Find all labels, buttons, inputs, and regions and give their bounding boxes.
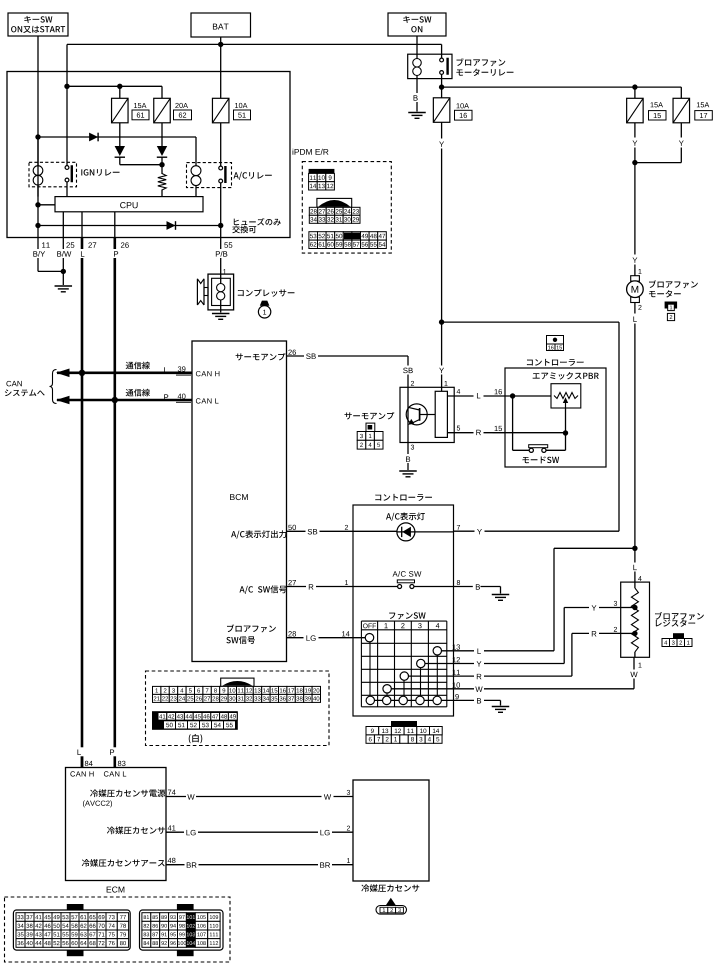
wire horizontal bus from ON/START to blower relay contact xyxy=(67,44,442,167)
fuse 15A 61 xyxy=(112,98,149,123)
resistor R1 internal xyxy=(158,174,166,191)
node junction ground join xyxy=(61,269,66,274)
wire pin27 R row xyxy=(287,586,398,588)
iPDM connector A cells xyxy=(309,173,335,190)
wire L into ECM xyxy=(81,755,84,768)
label R resistor xyxy=(589,629,599,638)
ECM box xyxy=(66,768,167,881)
connector icon resistor xyxy=(662,633,692,646)
label Y pin12 xyxy=(474,659,484,668)
ground symbol compressor xyxy=(212,314,230,320)
pin 28 BCM label xyxy=(288,631,296,636)
wire fuse62 to diode xyxy=(161,123,163,147)
ECM connector right tabs xyxy=(177,904,194,956)
node junction BAT bus xyxy=(218,42,223,47)
diode D2 down xyxy=(115,146,125,157)
wire CAN H row xyxy=(57,371,192,374)
node junction y225 right xyxy=(218,223,223,228)
label LG pin28 xyxy=(304,633,319,642)
connector icon motor 1 2 xyxy=(665,302,678,321)
ECM connector right shell xyxy=(140,910,224,950)
label CAN L ECM xyxy=(104,771,126,776)
node junction diode join xyxy=(159,162,164,167)
wire W row xyxy=(166,796,353,798)
wire fuse15 feed xyxy=(634,87,636,98)
brace CAN system xyxy=(50,370,57,404)
ECM connector left shell xyxy=(13,910,130,950)
label L pin4 xyxy=(474,391,484,400)
wire P thick vertical xyxy=(114,238,117,768)
wire mode SW branch xyxy=(513,396,529,450)
pin 26 label xyxy=(121,242,129,248)
label 冷媒圧カセンサアース ECM xyxy=(82,859,165,867)
label W pin10 xyxy=(474,684,484,693)
label A/C表示灯出力 BCM xyxy=(231,530,286,539)
ECM connector dashed box xyxy=(5,897,231,962)
diode D3 down xyxy=(157,146,167,157)
relay A/C リレー dashed box xyxy=(187,163,232,188)
arrow CAN H left xyxy=(56,369,70,378)
iPDM connector dashed box xyxy=(302,162,391,254)
label 白 xyxy=(189,734,202,743)
label B blower coil xyxy=(410,93,421,102)
node junction pin15 xyxy=(563,430,568,435)
wire Y label thermo xyxy=(437,366,447,375)
wire resistor pin2 tap xyxy=(621,632,635,634)
ground symbol fanSW xyxy=(492,707,510,713)
label B/Y xyxy=(31,249,48,258)
wire L thick vertical xyxy=(81,238,84,768)
node junction x67 y86 xyxy=(64,84,69,89)
wire fanSW stems xyxy=(370,638,437,701)
label ブロアファンSW信号 BCM xyxy=(226,624,275,643)
label サーモアンプ BCM xyxy=(236,353,286,361)
node junction Y branch xyxy=(439,319,444,324)
iPDM connector C cells xyxy=(309,232,386,249)
label B thermo xyxy=(403,454,413,463)
connector icon sensor oval xyxy=(376,898,407,914)
label R pin5 xyxy=(474,427,484,436)
wire fuse61 to diode xyxy=(119,123,121,147)
iPDM connector A header xyxy=(309,169,335,174)
pin 2 label motor xyxy=(638,305,641,310)
wire junction to resistor xyxy=(161,165,163,174)
BCM connector lower block xyxy=(152,711,238,730)
thermo amp output block xyxy=(435,391,447,437)
label コンプレッサー xyxy=(238,289,295,297)
label W resistor xyxy=(629,670,639,679)
label Y fuse15 xyxy=(630,138,640,148)
label Y fuse16 xyxy=(437,139,447,149)
wire P/B pin55 down xyxy=(220,238,222,275)
pin 1 sensor label xyxy=(347,858,350,863)
diode D1 right-pointing xyxy=(89,133,98,142)
label BCM xyxy=(230,494,248,500)
ECM connector left tabs xyxy=(67,904,84,956)
thermo amp box xyxy=(400,387,454,442)
wire resistor top stub xyxy=(634,582,636,588)
relay IGN contact xyxy=(65,165,73,196)
label W right xyxy=(322,792,334,801)
wire fanSW row12 out xyxy=(421,608,621,664)
pin 2 thermo label xyxy=(411,381,414,386)
pin 74 label xyxy=(166,790,179,797)
wire pin26 SB xyxy=(287,356,409,470)
pin 39 label xyxy=(176,366,191,375)
ECM connector right cells xyxy=(142,913,220,948)
label ブロアファンレジスター xyxy=(655,612,704,627)
wire B/Y pin11 down xyxy=(38,238,63,272)
label 冷媒圧カセンサ ECM xyxy=(107,826,165,834)
fan switch headers xyxy=(363,623,439,628)
resistor R2 element xyxy=(631,588,638,652)
pin 11 label xyxy=(42,242,50,247)
LED A/C表示灯 xyxy=(397,523,454,541)
node junction CAN H on L xyxy=(79,370,85,376)
wire LG row xyxy=(166,831,353,833)
label B pin9 xyxy=(474,696,484,705)
label コントローラー upper xyxy=(527,359,584,366)
relay IGN coil xyxy=(33,166,43,197)
arrow CAN L left xyxy=(56,396,70,405)
label Y pin7 xyxy=(475,527,485,536)
node junction CAN L on P xyxy=(112,397,118,403)
wire fanSW row9 out xyxy=(370,700,501,705)
relay ブロアファンモーターリレー box xyxy=(408,54,452,78)
pin 2 sensor label xyxy=(347,826,350,831)
label ECM xyxy=(107,886,125,892)
pin 3 resistor label xyxy=(610,601,621,608)
BCM connector hump xyxy=(221,678,254,686)
label CAN H ECM xyxy=(70,771,93,776)
label BR left xyxy=(185,860,199,869)
wire pin11 line segment xyxy=(37,137,39,238)
wire pin25 from CPU xyxy=(62,212,64,238)
label A/C表示灯 xyxy=(386,512,425,521)
pin 26 BCM label xyxy=(288,350,296,355)
motor ブロアファンモーター xyxy=(627,276,644,303)
wire diode D2 out xyxy=(119,158,121,165)
label ヒューズのみ交換可 xyxy=(232,218,281,233)
label 通信線 2 xyxy=(126,389,150,397)
wire pin8 to ground xyxy=(481,587,501,594)
relay A/C coil xyxy=(191,166,201,197)
pin 4 resistor label xyxy=(638,576,642,581)
controller air mix box xyxy=(505,368,606,467)
wire Y branch to controller pin7 xyxy=(442,322,619,531)
wire pin27 L from CPU xyxy=(81,212,83,238)
node junction pin2 tap xyxy=(632,631,637,636)
label CAN H in BCM xyxy=(196,371,220,376)
pin 9 label xyxy=(455,694,458,699)
pin 25 label xyxy=(66,242,74,248)
fuse 15A 17 xyxy=(673,98,712,123)
pin 2 resistor label xyxy=(610,627,621,634)
node junction L branch xyxy=(632,546,637,551)
label W left xyxy=(186,792,196,801)
label A/C SW xyxy=(393,571,422,577)
pin 11 label xyxy=(453,670,460,675)
label P CAN L xyxy=(164,394,168,399)
connector icon thermo xyxy=(357,423,383,449)
node junction CPU left xyxy=(35,202,40,207)
label L ECM xyxy=(74,747,84,756)
label R pin11 xyxy=(474,672,484,681)
label Y motor xyxy=(630,255,640,265)
node junction x120 y86 xyxy=(117,84,122,89)
label L CAN H xyxy=(164,367,167,372)
ECM connector left cells xyxy=(16,913,129,948)
label BR right xyxy=(318,860,332,869)
iPDM connector B hump xyxy=(317,198,352,207)
label SB pin26 xyxy=(304,351,318,360)
node junction pin3 tap xyxy=(632,605,637,610)
node junction pin16 xyxy=(510,393,515,398)
ground symbol A/C SW xyxy=(492,595,510,601)
label A/Cリレー xyxy=(234,172,272,180)
label B/W xyxy=(56,249,73,258)
label Y fuse17 xyxy=(676,138,686,148)
pin 2 lower label xyxy=(345,525,348,530)
pin 10 label xyxy=(453,682,460,687)
label 通信線 1 xyxy=(126,362,150,370)
pin 13 label xyxy=(453,644,460,649)
label P/B xyxy=(213,249,230,258)
wire Y to motor xyxy=(634,163,636,276)
label L motor xyxy=(630,314,640,324)
label Y resistor xyxy=(589,603,599,612)
pin 8 label xyxy=(457,580,460,585)
pin 27 BCM label xyxy=(288,580,296,585)
label SB pin50 xyxy=(306,527,320,536)
power source box キーSW ON又はSTART xyxy=(8,13,68,36)
pin 12 label xyxy=(453,657,460,662)
connector icon round 1 xyxy=(258,301,270,318)
pin 4 label thermo xyxy=(457,389,461,394)
label L resistor xyxy=(630,563,640,572)
pin 3 sensor label xyxy=(347,790,350,795)
label コントローラー lower xyxy=(375,494,432,501)
label 冷媒圧カセンサ電源 ECM xyxy=(83,789,165,807)
wire fanSW row13 out xyxy=(437,548,635,651)
node junction Y merge xyxy=(632,160,637,165)
wire diode row y225 xyxy=(38,225,221,227)
wire B/W pin25 down xyxy=(62,238,64,272)
pin 7 label xyxy=(457,525,460,530)
pin 5 label thermo xyxy=(457,426,460,431)
pin 55 label xyxy=(224,242,232,247)
pin 40 label xyxy=(176,394,191,403)
blower fan resistor box xyxy=(621,582,650,657)
pin 15 label xyxy=(493,426,506,433)
label IGNリレー xyxy=(81,169,119,176)
pin 1 label compressor xyxy=(223,269,226,274)
wire pin28 LG row xyxy=(287,637,366,639)
connector icon 16 15 xyxy=(547,336,564,351)
label LG left xyxy=(184,828,198,837)
label L pin13 xyxy=(474,646,484,655)
wire diode D3 out xyxy=(161,158,163,165)
wire CAN L row xyxy=(57,399,192,402)
connector icon fanSW xyxy=(366,721,442,743)
wire resistor bottom stub xyxy=(634,652,636,657)
power source box キーSW ON xyxy=(388,13,446,36)
wire to ground xyxy=(62,271,64,285)
wire y87 to right fuses xyxy=(442,87,682,98)
fuse 10A 16 xyxy=(433,98,472,123)
wire fuse15 down xyxy=(634,123,636,163)
iPDM E/R outer box xyxy=(7,72,290,238)
label 冷媒圧カセンサ sensor xyxy=(361,884,419,892)
pin 41 label xyxy=(166,825,179,832)
label ブロアファンモーターリレー xyxy=(456,58,513,76)
label SB vert xyxy=(401,366,415,375)
label ブロアファンモーター xyxy=(649,280,698,297)
wire fanSW row10 out xyxy=(387,657,634,689)
wire BR row xyxy=(166,864,353,866)
wire pin26 P from CPU xyxy=(114,212,116,238)
fuse 10A 51 xyxy=(212,98,250,123)
label L wire xyxy=(78,249,88,258)
pin 1 label motor xyxy=(639,269,642,274)
wire pin50 SB row xyxy=(287,530,398,532)
relay blower coil xyxy=(413,36,422,112)
pin 1 resistor label xyxy=(639,663,642,668)
wire fuse17 down xyxy=(635,123,681,163)
pin 1 thermo label xyxy=(445,381,448,386)
relay A/C contact xyxy=(219,123,227,238)
node junction y225 left xyxy=(35,223,40,228)
switch モードSW xyxy=(529,445,548,453)
potentiometer PBR xyxy=(551,384,581,408)
pin 83 label xyxy=(118,761,126,766)
diode D4 right-pointing xyxy=(167,221,176,230)
wire motor down L xyxy=(634,303,636,583)
BCM connector top cells xyxy=(153,686,321,702)
relay IGN リレー dashed box xyxy=(29,162,77,187)
wire diode join y164 xyxy=(120,164,162,166)
wire resistor pin3 tap xyxy=(621,607,635,609)
fan switch contact circles xyxy=(365,634,441,705)
CPU box xyxy=(55,197,203,212)
wire fuse feed bus y86 xyxy=(67,86,162,98)
label モードSW xyxy=(522,456,559,463)
fan switch ファンSW grid xyxy=(361,621,446,707)
label サーモアンプ icon xyxy=(345,412,395,420)
fuse 15A 15 xyxy=(627,98,666,123)
pin 14 label xyxy=(342,631,350,636)
node junction blower contact xyxy=(439,84,444,89)
wire CPU left to pin11 line xyxy=(38,204,55,206)
pin 16 label xyxy=(493,389,506,396)
BCM box xyxy=(192,341,287,662)
wire BAT down to fuse 51 xyxy=(220,37,222,98)
pin 84 label xyxy=(85,761,93,766)
pin 3 thermo label xyxy=(411,445,414,450)
wire pin16 inside xyxy=(505,395,551,397)
label R pin27 xyxy=(306,582,316,591)
node junction keysw diode row xyxy=(35,134,40,139)
pin 50 label xyxy=(288,525,296,530)
ground symbol G1 xyxy=(55,286,73,292)
wire キーSW ON又はSTART down to IGN relay coil xyxy=(37,36,39,166)
label P wire xyxy=(111,249,121,258)
controller lower box xyxy=(353,505,454,716)
label LG right xyxy=(318,828,332,837)
label iPDM E/R xyxy=(293,149,329,155)
fuse 20A 62 xyxy=(154,98,192,123)
BCM connector dashed box xyxy=(146,671,330,746)
ground symbol thermo xyxy=(399,471,417,477)
switch A/C SW xyxy=(397,580,480,589)
label P ECM xyxy=(107,747,117,756)
label ファンSW xyxy=(389,612,425,619)
wire resistor to CPU xyxy=(161,190,163,197)
wire fanSW row11 out xyxy=(404,633,621,676)
wire Y fuse16 down xyxy=(441,122,443,391)
wire diode row y137 xyxy=(38,137,196,166)
transistor Q1 xyxy=(406,404,435,425)
pin 27 label xyxy=(88,242,96,247)
pin 48 label xyxy=(166,858,179,865)
iPDM connector B cells xyxy=(309,207,360,223)
label CAN L in BCM xyxy=(196,398,219,403)
pressure sensor box xyxy=(353,780,429,881)
label エアミックスPBR xyxy=(533,372,599,380)
relay blower contact xyxy=(440,44,449,98)
label CAN システムへ xyxy=(5,381,45,396)
wire pin5 R row xyxy=(447,432,565,434)
power source box BAT xyxy=(191,13,251,37)
wire PBR wiper down xyxy=(546,408,566,450)
ground symbol blower relay xyxy=(408,113,426,119)
label B pin8 xyxy=(473,582,483,591)
wire pin4 L row xyxy=(447,395,505,397)
node junction right fuse15 xyxy=(632,84,637,89)
compressor コンプレッサー xyxy=(197,274,233,312)
pin 1 lower label xyxy=(345,580,348,585)
label A/C SW信号 BCM xyxy=(239,585,286,594)
